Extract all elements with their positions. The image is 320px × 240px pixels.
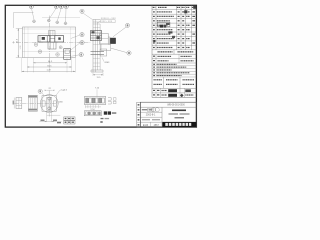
balloon t3: [59, 5, 63, 9]
right balloon leaders: [71, 35, 80, 39]
dark stamp marks in table: [157, 22, 170, 26]
table section header band: [152, 53, 196, 55]
approval stamps: [142, 109, 148, 110]
label kiban: [104, 111, 107, 114]
balloon m1: [125, 23, 129, 27]
face view slot: [47, 97, 52, 110]
revision strip: [137, 102, 141, 127]
balloon t4: [64, 5, 68, 9]
doc code row: [150, 122, 152, 127]
extension lines: [21, 58, 23, 72]
table note lines: [152, 65, 196, 67]
parts list table grid: [151, 5, 153, 97]
main view outer outline: [23, 27, 76, 58]
bold stamp text: [168, 89, 177, 92]
approval section: [163, 77, 165, 88]
vertical centerline: [49, 16, 51, 64]
lower right component: [64, 49, 71, 60]
title block frame: [141, 102, 197, 127]
part name cell: [172, 110, 186, 112]
side view top cap: [93, 19, 100, 21]
lower bracket: [101, 44, 111, 50]
company name bar: [162, 122, 196, 127]
balloon m2: [127, 51, 131, 55]
left vertical dimension: [16, 28, 23, 30]
screw symbol a: [34, 43, 38, 47]
balloon t1: [29, 5, 33, 9]
pad strip A: [84, 97, 106, 105]
side view dim: [93, 74, 103, 76]
side view mid flange: [91, 31, 102, 41]
dim below face view: [46, 112, 48, 123]
left stack dim: [13, 98, 15, 109]
svg-text:XXX + XXX: XXX + XXX: [101, 21, 112, 23]
balloon r2: [80, 41, 84, 45]
left target cross: [12, 41, 15, 43]
balloon leaders top: [32, 9, 34, 20]
balloon t2: [54, 5, 58, 9]
balloon r1: [80, 33, 84, 37]
cylinder side view: [28, 95, 37, 111]
balloon r3: [79, 53, 83, 57]
clamp block dark: [110, 38, 116, 44]
svg-text:4567: 4567: [154, 125, 160, 127]
main view inner edges: [23, 32, 76, 34]
screw symbol c: [56, 53, 60, 57]
table sub rows: [152, 58, 196, 60]
pad strip A brackets: [108, 98, 111, 101]
small notes under label: [101, 118, 104, 119]
balloon t5: [80, 9, 84, 13]
svg-text:2-M4: 2-M4: [58, 102, 64, 104]
bottom rows with bold marks: [152, 92, 196, 94]
center assembly left block: [38, 36, 50, 42]
pad strip B: [84, 111, 101, 116]
end view stack: [16, 98, 22, 109]
upper cover line: [42, 16, 80, 18]
dimension chain below main view: [33, 62, 67, 64]
svg-text:4-M3: 4-M3: [105, 62, 111, 64]
gdt frames: [64, 117, 75, 120]
flange right extension: [100, 33, 109, 44]
top screw heads: [33, 20, 36, 23]
cross lower slab: [48, 42, 56, 49]
svg-text:2-φ4.5: 2-φ4.5: [61, 89, 68, 92]
parts list cell text: [153, 7, 154, 8]
horizontal centerline: [17, 41, 91, 43]
page border: [5, 5, 196, 127]
face view square: [42, 96, 56, 112]
screw symbol b: [38, 50, 42, 54]
svg-text:E123: E123: [143, 125, 149, 127]
dim square22: [47, 89, 53, 91]
face view side tabs: [42, 101, 45, 106]
side view mid ticks: [93, 27, 100, 29]
cross upper slab: [49, 30, 55, 35]
side view verticals: [92, 20, 94, 73]
side view base: [91, 69, 103, 71]
face view circle: [40, 95, 58, 113]
upper-left extension lines: [14, 12, 34, 14]
center assembly right block: [55, 36, 64, 42]
svg-text:WB-06-001-0000: WB-06-001-0000: [167, 105, 185, 107]
face view holes: [48, 97, 51, 100]
balloon b1: [38, 89, 42, 93]
screw symbol d: [59, 46, 62, 49]
pad strip A side squares: [113, 98, 116, 101]
strip A dims: [85, 106, 101, 108]
side view step: [91, 51, 105, 53]
center assembly middle block: [50, 35, 55, 42]
svg-text:2002-8-1: 2002-8-1: [146, 114, 156, 117]
bottom centerlines: [15, 102, 59, 104]
